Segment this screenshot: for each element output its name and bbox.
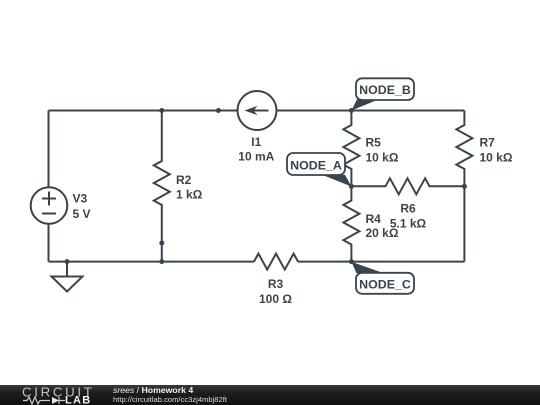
resistor R7 10 kOhm (vertical at x=464)	[456, 111, 472, 187]
resistor R4 20 kOhm (vertical, node A to node C)	[343, 186, 359, 261]
wire bottom right (R3 right through node C to bottom right corner)	[298, 261, 464, 263]
wire left vertical lower (V3 - terminal to bottom rail)	[48, 224, 50, 262]
footer bar	[0, 385, 540, 405]
svg-text:10 kΩ: 10 kΩ	[366, 150, 399, 164]
svg-text:I1: I1	[251, 135, 261, 149]
svg-text:R7: R7	[480, 135, 496, 149]
svg-text:10 mA: 10 mA	[238, 150, 274, 164]
junction dot I1 left terminal	[216, 108, 221, 113]
svg-text:NODE_B: NODE_B	[359, 83, 411, 97]
wire left vertical upper (top rail down to V3 + terminal)	[48, 111, 50, 188]
wire bottom left (V3 bottom to R3 left)	[49, 261, 255, 263]
voltage source V3 body	[31, 187, 68, 224]
junction dot R2 at bottom rail	[159, 259, 164, 264]
wire top left horizontal (V3 top to I1 left terminal)	[49, 110, 238, 112]
resistor R6 5.1 kOhm (horizontal, node A to right column)	[351, 178, 464, 194]
svg-text:1 kΩ: 1 kΩ	[176, 187, 203, 201]
CircuitLab logo	[0, 385, 110, 405]
svg-text:5.1 kΩ: 5.1 kΩ	[390, 216, 427, 230]
svg-text:R6: R6	[400, 201, 416, 215]
resistor R3 100 Ohm (horizontal in bottom rail)	[254, 254, 298, 270]
current source I1 body	[238, 91, 277, 130]
node B junction dot	[349, 108, 354, 113]
svg-text:R3: R3	[268, 277, 284, 291]
svg-text:R5: R5	[366, 135, 382, 149]
node NODE_B callout	[351, 78, 414, 110]
svg-text:100 Ω: 100 Ω	[259, 292, 292, 306]
resistor R5 10 kOhm (vertical, node B to node A)	[343, 111, 359, 187]
junction dot R6/R7 right column	[462, 184, 467, 189]
svg-text:R2: R2	[176, 173, 192, 187]
junction dot R2 top	[159, 108, 164, 113]
resistor R2 1 kOhm (vertical at x=162)	[154, 111, 170, 262]
svg-text:R4: R4	[366, 212, 382, 226]
node A junction dot	[349, 184, 354, 189]
node NODE_A callout	[287, 153, 351, 187]
junction dot R2 bottom terminal	[159, 241, 164, 246]
svg-text:NODE_A: NODE_A	[290, 158, 342, 172]
svg-text:NODE_C: NODE_C	[359, 277, 411, 291]
wire right vertical (R7 bottom junction down to bottom rail)	[463, 186, 465, 261]
svg-text:10 kΩ: 10 kΩ	[480, 150, 513, 164]
footer breadcrumb text	[113, 386, 193, 395]
ground symbol	[52, 262, 83, 292]
junction dot ground at bottom rail	[65, 259, 70, 264]
node C junction dot	[349, 259, 354, 264]
node NODE_C callout	[351, 262, 414, 294]
svg-text:LAB: LAB	[65, 395, 92, 405]
svg-text:5 V: 5 V	[73, 207, 91, 221]
svg-text:V3: V3	[73, 192, 88, 206]
wire top right horizontal (I1 right through node B to top of R7)	[277, 110, 465, 112]
footer url text	[113, 395, 227, 404]
